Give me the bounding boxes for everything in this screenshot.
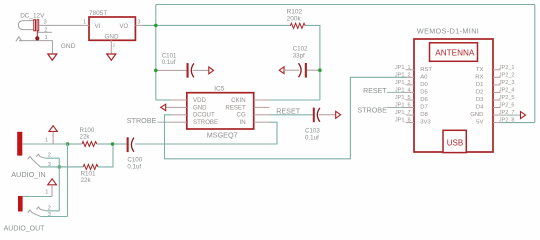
svg-text:USB: USB [447,138,463,147]
wire IN to C100 [135,122,277,144]
wire 5V right vertical [534,5,536,123]
svg-text:RESET: RESET [225,104,246,111]
wire 5V to JP2_8 [501,122,535,124]
svg-text:D1: D1 [476,82,484,88]
svg-text:VI: VI [95,24,101,30]
wire STROBE to D7 [387,107,407,109]
ground symbol under jack [48,54,57,60]
connector AUDIO_OUT sleeve bar [18,196,23,212]
svg-text:TX: TX [476,67,484,73]
svg-text:A0: A0 [420,74,428,80]
capacitor C100 plates [127,137,134,152]
supply arrow stub AUDIO_OUT [51,185,53,197]
svg-text:D8: D8 [420,112,428,118]
svg-text:JP2_8: JP2_8 [499,118,515,124]
svg-text:STROBE: STROBE [357,106,387,115]
wire R101 left lead [59,166,83,168]
svg-text:STROBE: STROBE [127,116,157,125]
junction node 5V at VO [154,24,158,28]
svg-text:0.1uf: 0.1uf [305,134,319,141]
svg-text:D4: D4 [476,105,484,111]
junction node mixer [111,142,115,146]
pin GND lead [110,40,112,53]
svg-text:0.1uf: 0.1uf [162,59,176,66]
svg-text:JP1_3: JP1_3 [395,80,411,86]
svg-text:JP1_1: JP1_1 [395,65,411,71]
resistor R102 zigzag [290,23,305,28]
svg-text:GND: GND [470,112,483,118]
svg-text:D0: D0 [420,82,428,88]
svg-text:VDD: VDD [193,97,206,104]
capacitor C101 left lead [156,69,187,71]
ground symbol under 7805 [107,54,116,60]
supply arrow stub AUDIO_IN [52,131,54,144]
wire R102 to CKIN corner [305,25,320,100]
svg-text:D3: D3 [476,97,484,103]
svg-text:33pf: 33pf [293,52,305,59]
supply arrow right of C101 [209,67,214,74]
wire 5V top run [156,4,535,6]
svg-text:JP1_8: JP1_8 [395,118,411,124]
svg-text:JP1_7: JP1_7 [395,110,411,116]
wire jack pin3 to 7805 VI [39,24,82,26]
supply arrow right of C103 [336,111,341,118]
AUDIO_IN pin3 wire [40,166,83,168]
svg-text:D6: D6 [420,97,428,103]
svg-text:3: 3 [137,20,140,26]
USB sub box [443,130,466,152]
svg-text:2: 2 [48,153,51,159]
svg-text:JP2_5: JP2_5 [499,95,515,101]
WEMOS right pin leads [493,70,501,123]
wire jack pin1 to ground [19,41,52,54]
svg-text:0.1uf: 0.1uf [127,163,141,170]
junction node jack pin1 [35,36,39,40]
wire vertical A audio bus [58,158,60,211]
svg-text:3: 3 [48,212,51,218]
pin VI lead [82,24,90,26]
svg-text:3V3: 3V3 [420,120,431,126]
supply arrow above AUDIO_OUT [48,179,57,185]
svg-text:JP2_2: JP2_2 [499,72,515,78]
AUDIO_IN pin2 lever [36,154,45,158]
connector X1 barrel jack body [18,20,38,31]
pin VO lead [135,24,143,26]
svg-text:3: 3 [48,162,51,168]
WEMOS left pin leads [406,70,414,123]
wire CKIN [270,99,320,101]
IC5 left pin leads [166,100,187,122]
wire VDD to 5V [156,99,171,101]
wire STROBE stub at IC5 [158,121,171,123]
supply arrow left of C102 [279,67,284,74]
capacitor C103 plates [313,108,320,123]
connector AUDIO_IN sleeve bar [17,132,22,156]
svg-text:DCOUT: DCOUT [193,112,215,119]
svg-text:22k: 22k [81,177,92,184]
AUDIO_IN pin1 wire [23,143,68,145]
svg-text:RX: RX [475,74,483,80]
jack tip stub [36,31,38,39]
svg-text:5V: 5V [476,120,483,126]
IC5 box MSGEQ7 [187,93,254,129]
svg-text:JP1_2: JP1_2 [395,72,411,78]
svg-text:200k: 200k [287,15,302,22]
wire 5V vertical main [155,5,157,101]
AUDIO_OUT pin3 wire [40,216,67,218]
svg-text:ANTENNA: ANTENNA [435,49,475,58]
AUDIO_OUT pin3 lever [28,210,41,216]
svg-text:3: 3 [44,20,47,26]
wire DCOUT to A0 [165,77,407,159]
wire R101 right lead to R100 [98,144,113,167]
wire RESET to C103 [270,114,313,116]
svg-text:CG: CG [237,112,246,119]
svg-text:DC_12V: DC_12V [20,12,45,19]
ANTENNA sub box [430,43,478,62]
junction node C102 at CKIN [318,68,322,72]
junction node C101 at 5V [154,69,158,73]
svg-text:1: 1 [45,190,48,196]
wire R100 right lead [97,143,113,145]
svg-text:2: 2 [48,206,51,212]
svg-text:JP1_5: JP1_5 [395,95,411,101]
capacitor C101 plates [187,63,194,78]
regulator U1 box [89,17,135,40]
wire GND JP2_7 [501,114,521,116]
capacitor C102 right lead [307,69,320,71]
wire 5V rail 7805 VO to R102 [143,24,290,26]
supply arrow above AUDIO_IN [49,126,57,132]
svg-text:WEMOS-D1-MINI: WEMOS-D1-MINI [417,27,479,36]
svg-text:JP2_6: JP2_6 [499,103,515,109]
resistor R101 zigzag [83,164,98,169]
svg-text:STROBE: STROBE [193,119,218,126]
svg-text:RESET: RESET [363,88,387,95]
AUDIO_OUT pin2 lever [36,207,45,211]
AUDIO_IN pin3 lever [28,156,41,166]
module U2 box [414,39,493,152]
junction node audio in tip [66,142,70,146]
svg-text:D5: D5 [420,89,428,95]
jack switch caret [16,37,22,42]
svg-text:IC5: IC5 [214,85,225,92]
AUDIO_OUT pin1 wire [23,196,52,198]
svg-text:JP2_4: JP2_4 [499,87,515,93]
svg-text:D2: D2 [476,89,484,95]
svg-text:GND: GND [193,104,207,111]
ground arrow at JP2_7 [521,112,526,119]
svg-text:GND: GND [105,34,119,41]
svg-text:1: 1 [83,20,86,26]
svg-text:IN: IN [240,119,246,126]
IC5 right pin leads [254,100,270,122]
ground arrow at IC5 GND [161,104,166,110]
AUDIO_OUT pin2 wire [46,210,60,212]
wire RESET to D5 [387,91,407,93]
svg-text:D7: D7 [420,105,428,111]
svg-text:CKIN: CKIN [231,97,246,104]
svg-text:AUDIO_IN: AUDIO_IN [11,170,45,179]
wire jack pin2 stub [37,31,52,33]
junction node R101 left [58,165,62,169]
capacitor C101 right lead [193,69,209,71]
svg-text:RESET: RESET [276,106,301,115]
svg-text:RST: RST [420,67,432,73]
wire vertical B audio tip bus [67,144,69,217]
capacitor C100 left lead [113,143,127,145]
wire R100 left lead [68,143,83,145]
svg-text:JP2_3: JP2_3 [499,80,515,86]
svg-text:JP2_1: JP2_1 [499,65,515,71]
capacitor C102 left lead [284,69,299,71]
svg-text:MSGEQ7: MSGEQ7 [207,130,238,139]
svg-text:1: 1 [45,137,48,143]
capacitor C103 right lead [319,114,336,116]
svg-text:22k: 22k [80,134,91,141]
svg-text:VO: VO [120,24,129,30]
svg-text:AUDIO_OUT: AUDIO_OUT [4,225,46,232]
AUDIO_IN pin2 wire [46,157,60,159]
resistor R100 zigzag [82,142,97,147]
svg-text:GND: GND [61,43,76,50]
capacitor C102 plates [299,63,307,78]
